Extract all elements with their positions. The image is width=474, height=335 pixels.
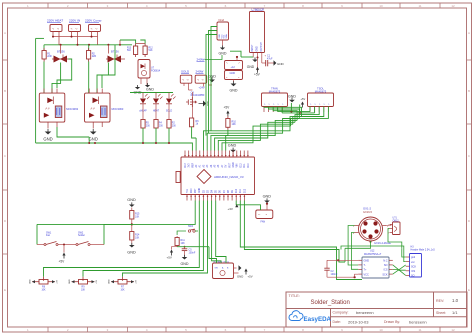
- svg-text:11: 11: [418, 4, 421, 8]
- wire to FOD814: [136, 43, 146, 45]
- resistor R4 200: [155, 119, 157, 121]
- svg-text:220V Comp: 220V Comp: [85, 19, 102, 23]
- svg-text:GND: GND: [237, 275, 243, 279]
- potentiometer R9 10K: [72, 281, 79, 283]
- svg-text:Header Male 2.54_1x5: Header Male 2.54_1x5: [411, 248, 436, 251]
- svg-text:12: 12: [451, 4, 455, 8]
- wire MOC2 green: [88, 137, 90, 143]
- resistor R12 51K: [144, 44, 146, 47]
- ground divider bottom: [131, 243, 133, 245]
- svg-text:+5V: +5V: [167, 256, 172, 260]
- svg-text:10K: 10K: [135, 236, 140, 239]
- svg-text:1.0: 1.0: [452, 298, 459, 303]
- wire triac2 to MOC2: [88, 62, 90, 94]
- wire GX16 left pins down: [348, 226, 358, 266]
- svg-text:⇗⇗: ⇗⇗: [45, 107, 51, 111]
- mcu U1 ARDUINO_NANO_V3: [181, 157, 255, 195]
- svg-text:51K: 51K: [149, 50, 154, 52]
- svg-text:10: 10: [379, 328, 383, 332]
- svg-text:+5V: +5V: [56, 279, 58, 283]
- connector P3 220V screw terminal: [89, 25, 101, 32]
- connector P1 220V screw terminal: [50, 25, 62, 32]
- connector CN4 240W: [195, 75, 207, 83]
- svg-text:p: p: [278, 104, 280, 105]
- wire LED top bus: [130, 92, 173, 94]
- LED2 HEAT: [155, 93, 157, 99]
- Arduino bottom pins: [186, 195, 188, 201]
- svg-text:MAX6675ISA+T: MAX6675ISA+T: [364, 253, 382, 256]
- power +5V switches: [63, 244, 65, 246]
- optocoupler U1 MOC3063: [39, 93, 65, 122]
- svg-text:Fan: Fan: [46, 234, 51, 237]
- svg-text:MOC3063: MOC3063: [66, 107, 78, 111]
- svg-text:+12: +12: [231, 66, 236, 69]
- svg-text:GND: GND: [263, 194, 272, 198]
- connector J1 fan out: [256, 210, 273, 219]
- svg-text:L7805CP: L7805CP: [252, 7, 265, 11]
- svg-text:RST: RST: [195, 188, 197, 193]
- svg-text:10K: 10K: [232, 123, 237, 126]
- svg-text:+3V: +3V: [228, 207, 233, 211]
- svg-text:p: p: [268, 104, 270, 105]
- opto U7 FOD814: [138, 60, 150, 79]
- svg-text:GND: GND: [247, 65, 255, 69]
- wire encoder pins: [209, 247, 217, 263]
- svg-text:D12: D12: [240, 163, 242, 168]
- svg-text:10K: 10K: [120, 289, 125, 291]
- svg-text:220V HEAT: 220V HEAT: [47, 19, 63, 23]
- svg-text:VIN: VIN: [237, 163, 239, 167]
- svg-text:D10: D10: [248, 163, 250, 168]
- title block: [286, 292, 467, 327]
- wire GND/+5V rails between modules: [277, 107, 279, 112]
- svg-text:SW4: SW4: [188, 226, 194, 228]
- resistor R15 10K: [130, 211, 134, 220]
- wire pot wipers to mcu: [44, 201, 200, 277]
- svg-text:IRF2444PBF: IRF2444PBF: [191, 94, 205, 97]
- svg-text:GX1-2: GX1-2: [363, 207, 372, 211]
- svg-text:gnd: gnd: [411, 256, 416, 259]
- resistor R2 200: [168, 119, 170, 121]
- svg-text:B: B: [468, 89, 470, 93]
- ground FOD814: [140, 78, 142, 84]
- svg-text:+5V: +5V: [301, 97, 306, 101]
- svg-text:RX0: RX0: [191, 188, 193, 193]
- svg-text:GND: GND: [233, 162, 235, 167]
- svg-text:+5V: +5V: [248, 275, 253, 279]
- svg-text:GND: GND: [230, 72, 236, 75]
- ground +5V encoder: [234, 267, 237, 269]
- optocoupler U2 MOC3063: [85, 93, 111, 122]
- svg-text:+5V: +5V: [135, 279, 137, 283]
- connector CN5 +12: [225, 61, 243, 70]
- svg-text:FAN: FAN: [261, 221, 266, 224]
- svg-text:GND: GND: [89, 137, 98, 142]
- svg-text:benzeenn: benzeenn: [409, 319, 427, 324]
- potentiometer R8 10K: [32, 281, 39, 283]
- svg-text:ARDUINO_NANO_V3: ARDUINO_NANO_V3: [214, 175, 244, 179]
- svg-text:12: 12: [451, 328, 455, 332]
- connector P2 220V screw terminal: [69, 25, 81, 32]
- svg-text:100nF: 100nF: [189, 251, 196, 254]
- svg-text:240W: 240W: [197, 58, 205, 62]
- wire 220V bus upper: [53, 36, 98, 38]
- svg-text:GND: GND: [257, 46, 259, 51]
- svg-text:FOD814: FOD814: [151, 70, 161, 73]
- svg-text:E: E: [4, 288, 6, 292]
- svg-text:INPUT: INPUT: [252, 44, 254, 51]
- svg-text:p: p: [319, 104, 321, 105]
- svg-text:+5V: +5V: [224, 106, 231, 110]
- LED3 SOLD: [168, 93, 170, 99]
- svg-text:TX1: TX1: [187, 188, 189, 193]
- wire U11 down: [388, 229, 402, 249]
- svg-text:TITLE:: TITLE:: [289, 294, 300, 298]
- wire mid band step-down to Arduino: [204, 117, 302, 151]
- svg-text:EasyEDA: EasyEDA: [304, 316, 332, 323]
- svg-text:T-: T-: [364, 264, 366, 267]
- ground L7805: [257, 57, 259, 59]
- wire to R1: [43, 45, 45, 51]
- svg-text:B: B: [4, 89, 6, 93]
- wire TFAN signals: [264, 107, 302, 117]
- svg-text:10K: 10K: [181, 242, 186, 245]
- svg-text:11: 11: [418, 328, 421, 332]
- svg-text:GND: GND: [69, 279, 71, 284]
- resistor R11 10K: [176, 236, 178, 237]
- resistor R10 10K: [227, 116, 229, 119]
- svg-text:220V IN: 220V IN: [69, 19, 80, 23]
- svg-text:GND: GND: [109, 279, 111, 284]
- svg-text:Solder: Solder: [78, 234, 85, 237]
- svg-text:51K: 51K: [127, 50, 132, 52]
- wire mcu to right bus 2: [244, 201, 345, 263]
- connector CN3 SOLD: [180, 75, 192, 83]
- svg-text:GND: GND: [219, 52, 227, 56]
- svg-text:benzeenn: benzeenn: [356, 310, 374, 315]
- EasyEDA logo: [289, 311, 332, 323]
- svg-text:GND: GND: [127, 198, 136, 202]
- svg-text:100nF: 100nF: [331, 273, 338, 276]
- svg-text:Company:: Company:: [333, 311, 349, 315]
- svg-text:SO: SO: [384, 264, 388, 267]
- svg-text:GND: GND: [127, 251, 136, 255]
- svg-text:/CS: /CS: [411, 270, 416, 273]
- svg-text:GND: GND: [364, 260, 370, 263]
- ground C1: [274, 60, 277, 65]
- svg-text:GND: GND: [30, 279, 32, 284]
- svg-text:p: p: [310, 104, 312, 105]
- svg-text:Solder_Station: Solder_Station: [311, 300, 350, 306]
- svg-text:/CS: /CS: [383, 269, 388, 272]
- svg-text:N.C: N.C: [383, 260, 388, 263]
- svg-text:+5V: +5V: [59, 260, 66, 264]
- svg-text:GND: GND: [277, 62, 285, 66]
- svg-text:E: E: [468, 288, 470, 292]
- svg-text:1/1: 1/1: [452, 310, 458, 315]
- svg-text:SCK: SCK: [411, 265, 416, 268]
- svg-text:10K: 10K: [135, 215, 140, 218]
- svg-text:GND: GND: [43, 137, 52, 142]
- ground OLED: [222, 40, 224, 46]
- svg-text:+▪: +▪: [238, 63, 240, 65]
- svg-text:p: p: [282, 104, 284, 105]
- svg-text:RST: RST: [229, 162, 231, 167]
- svg-text:-▪: -▪: [266, 214, 268, 216]
- wire Q3 drain/source: [191, 92, 193, 97]
- wire left vertical green: [35, 38, 37, 143]
- svg-text:A: A: [4, 31, 6, 35]
- svg-text:SCK: SCK: [382, 273, 387, 276]
- wire long bottom green bus: [36, 143, 193, 151]
- wire divider to Arduino: [132, 201, 195, 225]
- svg-text:p: p: [328, 104, 330, 105]
- potentiometer R7 10K: [111, 281, 118, 283]
- svg-text:REF: REF: [192, 162, 194, 167]
- resistor R16 (left of mcu): [176, 172, 180, 183]
- svg-text:Date:: Date:: [333, 320, 341, 324]
- wire R6 to mcu: [195, 138, 197, 151]
- svg-text:D13: D13: [185, 163, 187, 168]
- svg-text:GX16-5: GX16-5: [363, 210, 372, 214]
- svg-text:10K: 10K: [41, 289, 46, 291]
- svg-text:GND: GND: [228, 143, 237, 147]
- svg-text:+5V: +5V: [254, 73, 261, 77]
- svg-text:D10: D10: [236, 188, 238, 193]
- GX16 pins: [355, 225, 359, 227]
- svg-text:OUTPUT: OUTPUT: [261, 41, 263, 51]
- ground CN5: [233, 80, 235, 83]
- svg-text:D11: D11: [244, 163, 246, 168]
- svg-text:⇗⇗: ⇗⇗: [90, 107, 96, 111]
- svg-text:D12: D12: [244, 188, 246, 193]
- svg-text:2019-10-03: 2019-10-03: [348, 319, 369, 324]
- svg-text:p: p: [314, 104, 316, 105]
- wire switch loop green: [36, 224, 38, 244]
- resistor R1 22R: [43, 48, 45, 51]
- wire U12-H3 crossing: [393, 265, 406, 276]
- svg-text:p: p: [264, 104, 266, 105]
- svg-text:GX16-4-MALE: GX16-4-MALE: [374, 241, 391, 245]
- svg-text:VCC: VCC: [364, 273, 369, 276]
- resistor R14 10K: [130, 232, 134, 241]
- power +5V R11: [170, 250, 173, 253]
- wire GX16 bottom: [345, 241, 371, 248]
- svg-text:T+: T+: [364, 269, 368, 272]
- wire R10 to mcu: [225, 136, 227, 151]
- Arduino logo diamond: [197, 170, 211, 184]
- svg-text:Sheet:: Sheet:: [436, 311, 446, 315]
- resistor R6 1k: [190, 118, 194, 127]
- svg-text:p: p: [273, 104, 275, 105]
- wire OLED vcc: [206, 35, 217, 136]
- svg-text:SDA: SDA: [225, 34, 228, 39]
- svg-text:+5V: +5V: [96, 279, 98, 283]
- wire OLED SCL/SDA to bus: [211, 27, 217, 131]
- svg-text:3V3: 3V3: [189, 163, 191, 168]
- svg-text:A: A: [468, 31, 470, 35]
- svg-text:R13: R13: [127, 48, 132, 50]
- svg-text:R12: R12: [149, 48, 154, 50]
- svg-text:GND: GND: [181, 262, 189, 266]
- svg-text:47uF: 47uF: [267, 57, 273, 60]
- resistor R13 51K: [135, 44, 137, 47]
- wire +12 to L7805: [230, 51, 241, 57]
- svg-text:10: 10: [379, 4, 383, 8]
- svg-text:240W: 240W: [196, 70, 204, 74]
- wire mcu to J1: [236, 201, 260, 211]
- wire H3 top pins: [402, 248, 406, 257]
- power +5V out: [257, 69, 259, 71]
- Arduino top pins: [184, 151, 186, 158]
- svg-text:SOLD: SOLD: [181, 70, 190, 74]
- ground: [47, 129, 49, 132]
- ground Q3 (right): [203, 101, 206, 107]
- svg-text:GND: GND: [230, 89, 238, 93]
- svg-text:SW: SW: [215, 268, 218, 270]
- svg-text:REV:: REV:: [436, 299, 444, 303]
- svg-text:GND: GND: [199, 188, 201, 193]
- wire mcu to right bus 1: [240, 201, 362, 280]
- capacitor C2 100nF: [337, 259, 339, 261]
- ground: [92, 129, 94, 132]
- svg-text:+24V: +24V: [199, 85, 205, 89]
- svg-text:5V: 5V: [226, 164, 228, 167]
- svg-text:GND: GND: [146, 88, 154, 92]
- svg-text:10K: 10K: [81, 289, 86, 291]
- resistor R5 200: [142, 119, 144, 121]
- svg-text:BT136: BT136: [57, 50, 65, 54]
- svg-text:p: p: [324, 104, 326, 105]
- wire 220V bus lower: [44, 44, 132, 46]
- svg-text:22R: 22R: [47, 55, 52, 58]
- LED1 cHEAP: [142, 93, 144, 99]
- capacitor C5 100nF: [184, 246, 186, 248]
- ground C5: [184, 255, 186, 257]
- wire TSOL signals: [295, 107, 319, 123]
- connector CN5 GND: [225, 71, 243, 80]
- wire triac1 to MOC1: [43, 62, 45, 94]
- svg-text:22R: 22R: [92, 55, 97, 58]
- resistor R2 22R: [88, 48, 90, 51]
- svg-text:Drawn By:: Drawn By:: [384, 320, 400, 324]
- svg-text:MOC3063: MOC3063: [112, 107, 124, 111]
- svg-text:SO: SO: [411, 275, 415, 278]
